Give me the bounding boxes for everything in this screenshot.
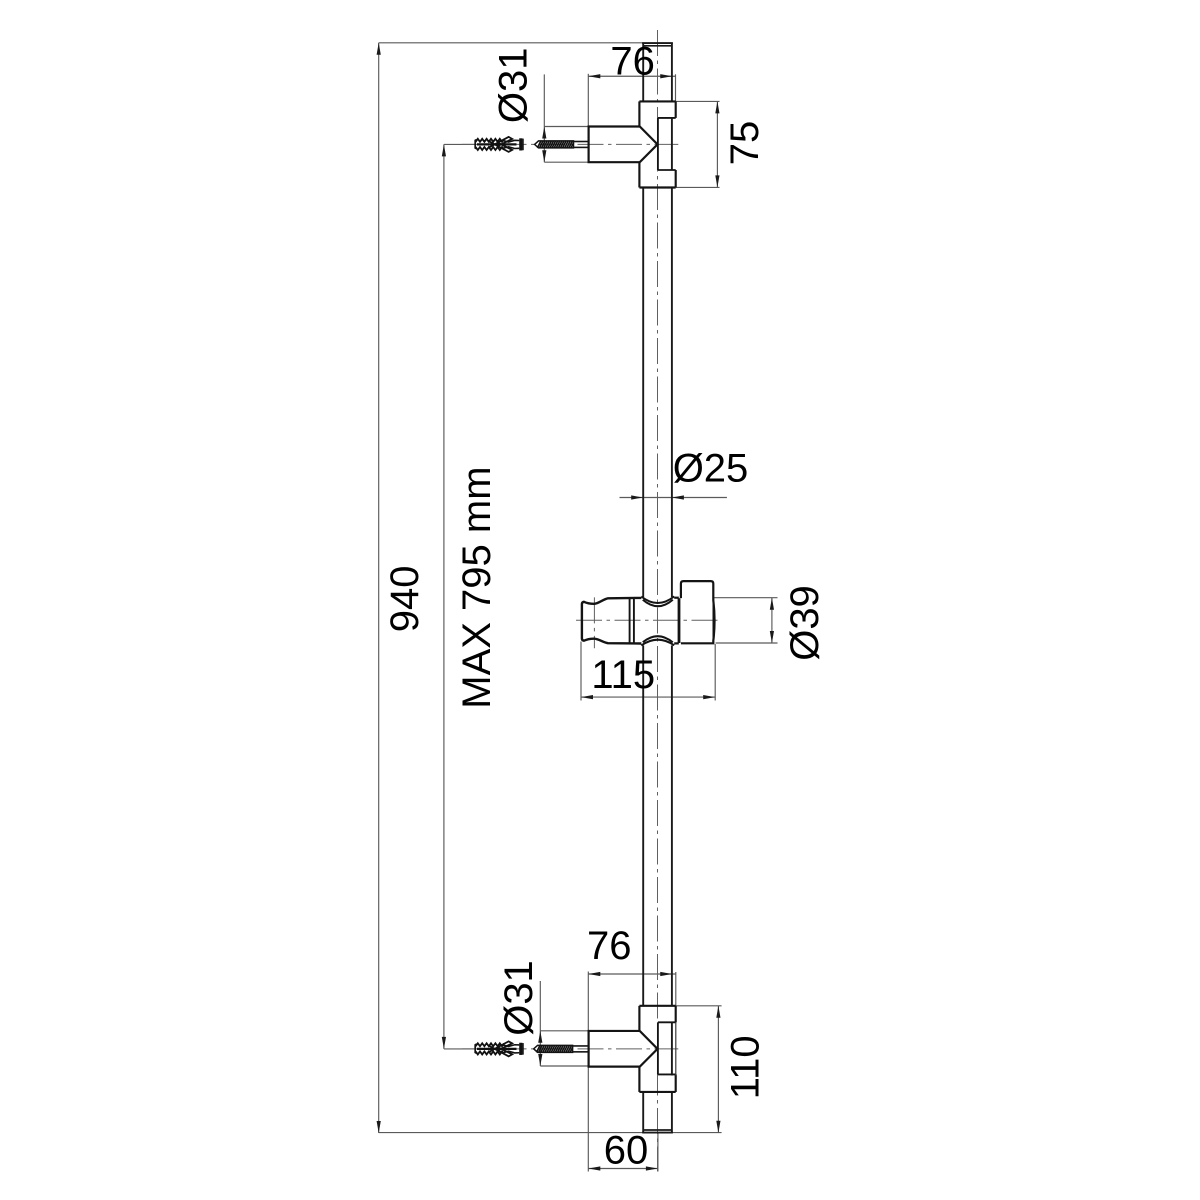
svg-text:110: 110 — [724, 1035, 768, 1099]
svg-text:MAX 795 mm: MAX 795 mm — [455, 466, 499, 708]
svg-text:Ø39: Ø39 — [783, 585, 827, 661]
svg-text:Ø25: Ø25 — [673, 447, 749, 491]
svg-text:76: 76 — [610, 39, 655, 83]
svg-text:Ø31: Ø31 — [491, 47, 535, 123]
svg-text:75: 75 — [723, 121, 767, 166]
svg-text:60: 60 — [604, 1129, 649, 1173]
svg-text:940: 940 — [383, 566, 427, 633]
svg-text:Ø31: Ø31 — [497, 960, 541, 1036]
svg-text:115: 115 — [591, 653, 655, 697]
svg-text:76: 76 — [587, 924, 632, 968]
